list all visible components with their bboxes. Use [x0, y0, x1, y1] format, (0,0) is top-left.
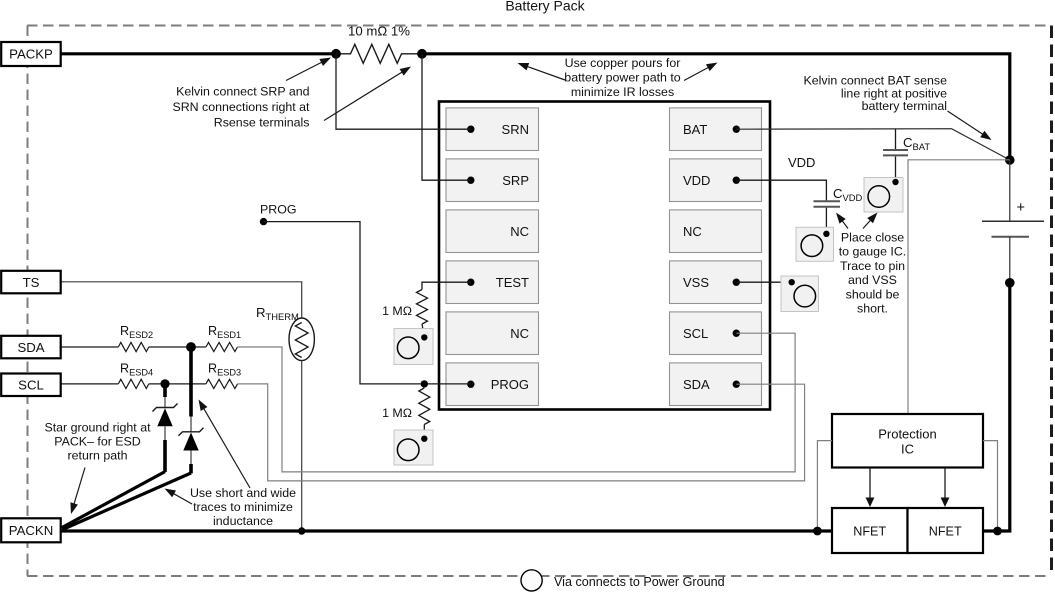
svg-text:Use short and wide: Use short and wide: [190, 486, 296, 500]
wire Rsense left terminal to SRN pin: [336, 54, 471, 129]
gauge IC left pin 1 SRN: [446, 108, 539, 151]
gauge IC left pin 2 SRP: [446, 159, 539, 202]
svg-text:10 mΩ 1%: 10 mΩ 1%: [348, 24, 410, 39]
terminal TS: [1, 271, 61, 294]
svg-text:SCL: SCL: [18, 377, 44, 392]
svg-text:SRP: SRP: [502, 173, 529, 188]
TVS diode D1 chain from SCL junction to PACKN: [62, 384, 178, 528]
via to ground at TEST resistor: [394, 329, 433, 365]
via to ground at PROG resistor: [394, 430, 433, 465]
wire RESD2 to junction: [149, 346, 206, 348]
svg-text:Star ground right at: Star ground right at: [44, 421, 151, 435]
wire RESD3 routed to SDA pin of gauge: [238, 384, 805, 481]
node Rsense left terminal: [331, 49, 341, 59]
wire SDA label to RESD2: [60, 346, 118, 348]
svg-text:Protection: Protection: [878, 427, 937, 442]
wire bottom power ground PACKN to right corner (thick): [60, 284, 1010, 532]
svg-text:and VSS: and VSS: [848, 273, 897, 287]
gauge IC right pin 6 SDA: [670, 363, 762, 406]
annotation: Kelvin connect SRP/SRN: [172, 58, 411, 130]
resistor RSENSE 10 mOhm 1%: [336, 24, 422, 64]
wire VSS pin to via: [736, 281, 791, 283]
gauge IC body U1: [439, 102, 770, 410]
svg-text:TEST: TEST: [496, 275, 529, 290]
svg-text:inductance: inductance: [213, 514, 273, 528]
svg-text:Via connects to Power Ground: Via connects to Power Ground: [554, 575, 725, 589]
svg-text:traces to minimize: traces to minimize: [193, 500, 293, 514]
svg-text:SDA: SDA: [683, 377, 710, 392]
gauge IC right pin 3 NC: [670, 210, 762, 253]
svg-text:PACKN: PACKN: [9, 523, 53, 538]
svg-text:VDD: VDD: [683, 173, 710, 188]
wire Rsense right terminal to SRP pin: [422, 54, 471, 180]
annotation: Kelvin connect BAT sense: [804, 74, 992, 141]
transistor NFET 1: [832, 508, 908, 553]
node Rsense right terminal: [417, 49, 427, 59]
gauge IC left pin 6 PROG: [446, 363, 539, 406]
node Protection IC right ground junction: [993, 527, 1002, 536]
svg-text:Kelvin connect SRP and: Kelvin connect SRP and: [176, 85, 310, 99]
wire Rsense to top-right corner and down to battery junction (thick): [422, 54, 1010, 160]
annotation: star ground: [44, 421, 151, 515]
svg-text:return path: return path: [68, 449, 128, 463]
gauge IC right pin 2 VDD: [670, 159, 762, 202]
svg-text:IC: IC: [901, 442, 914, 457]
resistor R_TEST 1 MOhm: [382, 290, 427, 338]
wire PACKP to Rsense (thick): [60, 52, 336, 55]
svg-text:CVDD: CVDD: [833, 186, 863, 203]
wire Protection IC left to power ground: [817, 441, 832, 529]
gauge IC right pin 1 BAT: [670, 108, 762, 151]
svg-text:RESD1: RESD1: [208, 324, 241, 340]
wire BAT pin to battery positive (kelvin sense): [736, 129, 1010, 160]
terminal PACKN: [1, 518, 61, 542]
svg-text:VDD: VDD: [788, 155, 815, 170]
gauge IC left pin 5 NC: [446, 312, 539, 355]
svg-text:PACKP: PACKP: [9, 47, 53, 62]
svg-text:RESD2: RESD2: [120, 324, 153, 340]
svg-text:TS: TS: [23, 275, 40, 290]
svg-text:NC: NC: [510, 224, 529, 239]
svg-text:CBAT: CBAT: [903, 135, 930, 152]
gate drive arrow to NFET 1: [869, 468, 871, 502]
svg-text:Rsense terminals: Rsense terminals: [214, 116, 310, 130]
wire TEST pin to 1 Mohm resistor: [422, 282, 471, 289]
svg-text:RESD3: RESD3: [208, 362, 241, 378]
resistor RESD1: [206, 324, 241, 352]
Protection IC: [832, 414, 983, 468]
annotation: place close to gauge IC: [836, 213, 906, 316]
svg-text:Battery Pack: Battery Pack: [505, 0, 585, 14]
node battery positive junction: [1005, 155, 1015, 165]
gauge IC right pin 5 SCL: [670, 312, 762, 355]
via to ground at CVDD: [796, 227, 834, 261]
gate drive arrow to NFET 2: [944, 468, 946, 502]
node PROG test point: [260, 203, 297, 226]
transistor NFET 2: [908, 508, 984, 553]
resistor RESD3: [206, 362, 241, 389]
svg-text:Trace to pin: Trace to pin: [840, 259, 905, 273]
svg-text:1 MΩ: 1 MΩ: [382, 406, 412, 420]
battery cell BT1: [982, 160, 1044, 284]
svg-text:RTHERM: RTHERM: [256, 305, 299, 322]
wire RESD4 to junction and on to RESD3: [149, 383, 206, 385]
svg-text:+: +: [1017, 200, 1025, 216]
svg-text:BAT: BAT: [683, 122, 707, 137]
svg-text:minimize IR losses: minimize IR losses: [571, 85, 674, 99]
gauge IC left pin 3 NC: [446, 210, 539, 253]
legend via symbol: [521, 570, 725, 591]
wire TS to thermistor: [60, 282, 302, 319]
svg-text:RESD4: RESD4: [120, 362, 153, 378]
gauge IC right pin 4 VSS: [670, 261, 762, 304]
svg-text:SDA: SDA: [17, 340, 44, 355]
svg-text:battery power path to: battery power path to: [564, 71, 681, 85]
svg-text:Place close: Place close: [841, 231, 904, 245]
svg-text:VSS: VSS: [683, 275, 709, 290]
svg-text:NFET: NFET: [929, 525, 962, 539]
svg-text:PROG: PROG: [260, 203, 297, 217]
via to ground at VSS: [781, 276, 819, 312]
resistor R_PROG 1 MOhm: [382, 388, 430, 439]
node SDA ESD junction: [186, 342, 196, 352]
svg-text:NFET: NFET: [853, 525, 886, 539]
terminal PACKP: [1, 42, 61, 66]
svg-text:short.: short.: [857, 302, 888, 316]
svg-text:PROG: PROG: [491, 377, 529, 392]
svg-text:SRN connections right at: SRN connections right at: [172, 100, 310, 114]
terminal SDA: [1, 336, 61, 359]
wire battery junction to Protection IC: [908, 160, 1010, 414]
capacitor CBAT: [883, 129, 930, 182]
node battery negative junction: [1005, 278, 1015, 288]
svg-text:NC: NC: [683, 224, 702, 239]
svg-text:Use copper pours for: Use copper pours for: [565, 56, 681, 70]
TVS diode D2 chain from SDA junction to PACKN (thick trace): [63, 347, 204, 530]
node SCL ESD junction: [160, 379, 169, 388]
wire PROG node to PROG pin: [264, 222, 471, 384]
annotation: short and wide traces: [165, 400, 297, 529]
svg-text:SCL: SCL: [683, 326, 708, 341]
capacitor CVDD: [814, 186, 863, 234]
svg-text:to gauge IC.: to gauge IC.: [839, 245, 907, 259]
svg-text:should be: should be: [846, 287, 900, 301]
wire SCL label to RESD4: [60, 383, 118, 385]
thermistor RTHERM: [256, 305, 314, 361]
annotation: copper pours: [518, 56, 718, 99]
node Protection IC left ground junction: [813, 527, 822, 536]
wire Protection IC right to power ground: [983, 441, 998, 529]
resistor RESD4: [118, 362, 153, 389]
svg-text:PACK– for ESD: PACK– for ESD: [54, 435, 141, 449]
svg-text:NC: NC: [510, 326, 529, 341]
svg-text:SRN: SRN: [502, 122, 529, 137]
svg-text:battery terminal: battery terminal: [862, 99, 947, 113]
wire VDD pin to CVDD: [736, 180, 826, 200]
svg-text:1 MΩ: 1 MΩ: [382, 304, 412, 318]
via to ground at CBAT: [864, 178, 903, 213]
node junction PROG resistor tap: [421, 380, 428, 387]
terminal SCL: [1, 374, 61, 397]
node thermistor ground junction: [298, 527, 305, 534]
wire thermistor to power ground: [301, 361, 303, 531]
wire RESD1 routed to SCL pin of gauge: [238, 333, 796, 472]
resistor RESD2: [118, 324, 153, 352]
gauge IC left pin 4 TEST: [446, 261, 539, 304]
